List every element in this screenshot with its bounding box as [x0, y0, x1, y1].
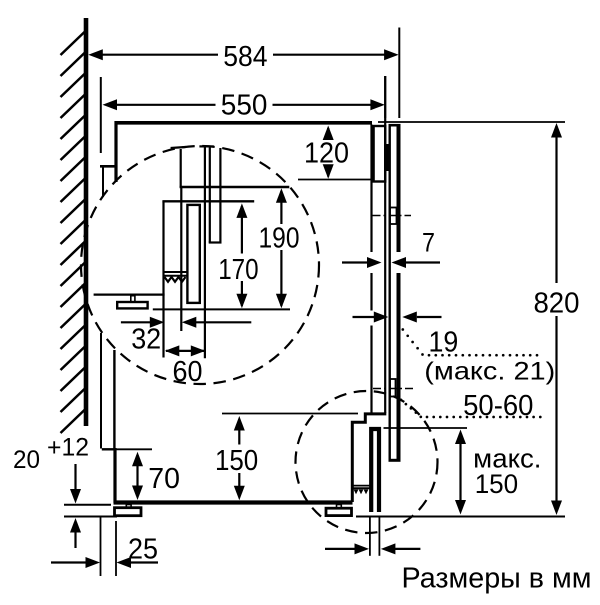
detail hose channel V5 — [162, 201, 164, 357]
furniture door right edge upper segment — [397, 124, 401, 252]
detail shelf line H3 — [162, 200, 254, 202]
plinth gap line La — [64, 504, 111, 506]
svg-text:25: 25 — [128, 534, 158, 566]
appliance front edge lower segment — [370, 273, 372, 311]
furniture door right edge lower segment — [397, 273, 401, 460]
820 top reference line — [378, 121, 565, 123]
extension line E1 — [384, 76, 386, 118]
furniture door bottom cap — [389, 459, 401, 462]
plinth recess outline — [352, 414, 386, 502]
svg-text:190: 190 — [259, 223, 300, 255]
niche back line lower segment — [100, 333, 102, 449]
dim 170 — [241, 206, 243, 306]
dim 190 — [280, 191, 282, 306]
left foot plate — [115, 508, 142, 516]
left foot stem — [126, 505, 131, 508]
dim 820 — [555, 126, 557, 511]
dim 20+12 arrows — [74, 464, 76, 548]
dim 7 — [342, 261, 440, 263]
dim 60 — [166, 350, 204, 352]
svg-text:550: 550 — [221, 90, 268, 122]
dim 150 bottom — [238, 419, 240, 497]
detail pipe V1 — [180, 149, 182, 188]
appliance left step bar — [100, 165, 117, 168]
appliance left edge upper — [114, 121, 117, 182]
120 lower reference line — [298, 179, 374, 181]
dim hose bottom — [325, 548, 420, 550]
appliance left edge lower — [113, 448, 116, 503]
svg-text:Размеры в мм: Размеры в мм — [402, 563, 592, 595]
max150 reference line — [384, 427, 468, 429]
detail clamp double line — [164, 272, 188, 276]
svg-text:20: 20 — [13, 446, 40, 474]
dim 25 — [51, 561, 158, 563]
detail clamp zigzag — [165, 277, 186, 282]
svg-text:150: 150 — [475, 469, 519, 499]
right foot plate — [326, 508, 352, 515]
svg-text:150: 150 — [215, 445, 258, 477]
detail pipe V2 — [204, 147, 206, 358]
detail pipe V1 top tick — [171, 147, 186, 148]
wall line — [84, 18, 89, 426]
hinge 2 axis dash-dot line — [373, 388, 415, 390]
svg-text:(макс. 21): (макс. 21) — [424, 358, 555, 386]
wall hatching — [61, 31, 86, 433]
detail tube V3 — [209, 147, 211, 243]
plinth reference line to left — [222, 413, 358, 415]
svg-text:60: 60 — [173, 356, 203, 388]
svg-text:19: 19 — [429, 327, 459, 359]
dim 550 line — [116, 104, 371, 106]
dim pair appliance-to-door-front — [353, 316, 442, 318]
detail foot stem — [131, 296, 135, 302]
550 extension line at wall — [100, 77, 102, 153]
dotted leader 50-60 — [400, 398, 403, 401]
appliance front edge upper segment — [370, 125, 372, 253]
drain hose extension line left — [369, 518, 371, 556]
dim 70 — [136, 455, 138, 494]
detail tube bottom cap — [209, 241, 222, 243]
extension line E2 — [398, 28, 400, 119]
detail pipe V2V3 top tick — [199, 145, 213, 147]
detail hose channel V6 — [180, 187, 182, 331]
plinth clamp double line — [353, 486, 370, 489]
svg-text:120: 120 — [304, 138, 349, 170]
appliance bottom-left step — [102, 448, 116, 450]
dim 32 — [121, 321, 251, 323]
drain hose extension line right — [378, 518, 380, 556]
dim 584 line — [101, 54, 385, 56]
floor line right segment — [356, 516, 565, 518]
floor line left segment — [64, 516, 117, 518]
svg-text:+12: +12 — [47, 434, 89, 462]
drain hose U outline — [371, 429, 379, 512]
hinge 1 axis dash-dot line — [373, 215, 412, 217]
worktop mounting panel B — [374, 126, 386, 182]
dim 120 — [327, 128, 329, 177]
detail wall bracket line H4 — [94, 294, 165, 296]
detail tube V4 — [219, 148, 221, 243]
plinth clamp teeth — [354, 489, 369, 494]
right foot stem — [337, 505, 342, 509]
furniture door left edge — [389, 124, 391, 462]
svg-text:170: 170 — [218, 254, 258, 286]
furniture door top cap — [389, 124, 401, 127]
detail circle 1 — [81, 146, 319, 384]
dim max150 vertical — [459, 433, 461, 500]
detail ground line R1 — [153, 308, 290, 310]
appliance back line upper segment — [102, 168, 104, 198]
hinge 1 rect — [390, 208, 397, 225]
25 extension line left — [100, 518, 102, 577]
detail circle 2 — [296, 391, 438, 533]
dark spacer bar C — [385, 144, 390, 171]
svg-text:50-60: 50-60 — [463, 390, 533, 422]
detail shelf line H1 — [180, 186, 290, 188]
cabinet side line L2 — [384, 76, 386, 413]
hinge 2 rect — [390, 379, 396, 397]
svg-text:7: 7 — [422, 228, 435, 258]
70 reference tick — [114, 448, 152, 450]
appliance front edge lowest segment — [370, 326, 372, 413]
detail foot plate — [117, 302, 147, 308]
dotted leader 19 — [401, 328, 404, 331]
detail drain standpipe rect — [187, 205, 199, 303]
25 extension line right — [115, 521, 117, 576]
svg-text:32: 32 — [131, 324, 161, 356]
appliance bottom edge — [114, 500, 353, 504]
svg-text:820: 820 — [533, 287, 579, 319]
appliance top edge — [115, 121, 373, 125]
svg-text:70: 70 — [148, 463, 180, 495]
appliance back panel line — [113, 350, 115, 449]
svg-text:584: 584 — [223, 41, 267, 73]
